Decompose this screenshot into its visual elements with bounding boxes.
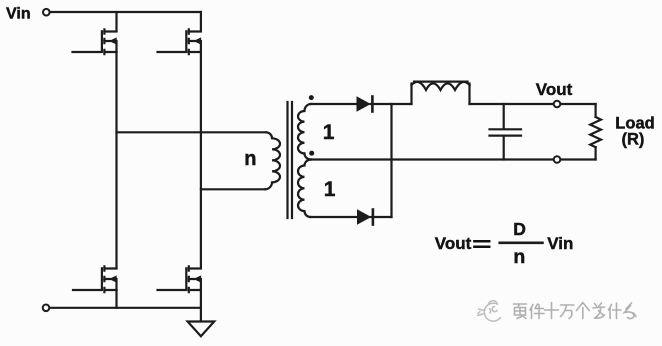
input terminal bottom xyxy=(43,305,50,312)
wire right leg xyxy=(200,52,202,268)
wire Q1 drain riser xyxy=(115,12,117,31)
wire output bottom rail xyxy=(309,158,596,160)
output terminal return xyxy=(554,156,561,163)
resistor R load zigzag xyxy=(590,117,601,147)
svg-text:Vout: Vout xyxy=(435,234,472,253)
wire D1 cathode to inductor xyxy=(371,103,412,105)
transformer core xyxy=(288,102,293,218)
output terminal Vout xyxy=(554,101,561,108)
transformer T1 secondary lower winding xyxy=(298,160,311,218)
transistor Q2 xyxy=(158,29,202,54)
svg-text:n: n xyxy=(244,148,256,170)
svg-text:D: D xyxy=(513,219,526,239)
wire inductor to load top xyxy=(470,103,596,105)
wire secondary bottom to D2 xyxy=(311,216,358,218)
wire top rail xyxy=(50,11,201,13)
wire Q4 source drop to ground xyxy=(200,290,202,322)
ground xyxy=(188,322,215,337)
wire load branch top xyxy=(594,104,596,117)
formula fraction bar xyxy=(500,241,543,244)
svg-text:Vout: Vout xyxy=(536,80,573,99)
svg-text:1: 1 xyxy=(324,178,336,201)
svg-text:1: 1 xyxy=(323,121,335,144)
diode D1 xyxy=(357,96,373,111)
transistor Q3 xyxy=(73,266,117,292)
watermark logo xyxy=(478,301,501,321)
wire bottom rail xyxy=(50,307,201,309)
wire rectifier junction vertical xyxy=(390,104,392,217)
svg-text:n: n xyxy=(513,246,525,268)
watermark text 硬件十万个为什么 xyxy=(514,303,637,319)
diode D2 xyxy=(357,209,373,224)
transistor Q4 xyxy=(158,266,202,292)
svg-text:Vin: Vin xyxy=(6,5,31,22)
wire primary top xyxy=(117,131,267,133)
capacitor C1 xyxy=(490,104,522,160)
polarity dot lower xyxy=(309,151,314,156)
wire Q2 drain riser xyxy=(200,12,202,31)
transistor Q1 xyxy=(73,29,117,54)
svg-text:(R): (R) xyxy=(622,130,645,148)
transformer T1 secondary upper winding xyxy=(298,104,311,160)
wire D2 cathode to junction xyxy=(371,216,392,218)
inductor L1 xyxy=(412,82,470,104)
wire Q3 source drop xyxy=(115,290,117,308)
wire primary bottom xyxy=(201,188,265,190)
wire load branch bottom xyxy=(594,147,596,159)
input terminal top (Vin) xyxy=(43,9,50,16)
transformer T1 primary winding xyxy=(265,132,280,189)
svg-text:Vin: Vin xyxy=(547,234,573,253)
wire secondary top to D1 xyxy=(311,103,357,105)
wire left leg xyxy=(115,52,117,268)
polarity dot upper xyxy=(309,95,314,100)
